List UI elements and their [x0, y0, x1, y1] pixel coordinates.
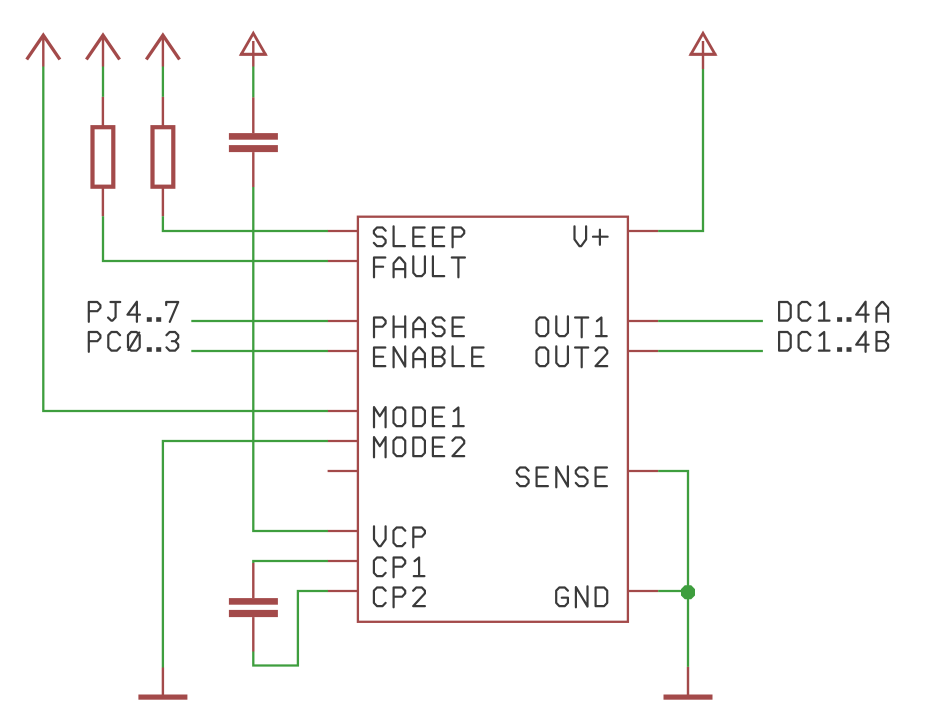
wire OUT2 to DC1..4B [658, 350, 763, 352]
pin name GND [556, 586, 607, 607]
pin name SLEEP [374, 226, 464, 247]
IC U1 body [358, 217, 628, 622]
wire CP2 to C2 bottom [253, 591, 328, 666]
wire SENSE to GND junction [658, 471, 688, 592]
net label DC1..4A [779, 302, 888, 322]
pin OUT2 (U1 right, y=351) [628, 350, 658, 352]
pin name V+ [575, 226, 608, 246]
resistor R2 [153, 97, 174, 216]
pin V+ (U1 right, y=231) [628, 230, 658, 232]
ground symbol GND2 (right) [664, 667, 713, 700]
pin name CP2 [374, 588, 425, 608]
wire PC0..3 bus to ENABLE [191, 350, 328, 352]
supply arrow P3 (VCC) [146, 35, 179, 67]
pin name MODE2 [374, 437, 464, 457]
wire OUT1 to DC1..4A [658, 320, 763, 322]
supply triangle P4 (VDD, above C1) [240, 33, 267, 66]
wire C1 bottom down to VCP [253, 187, 328, 531]
pin VCP (U1 left, y=531) [328, 530, 358, 532]
wire arrow P3 to R2 [162, 67, 164, 97]
pin MODE2 (U1 left, y=441) [328, 440, 358, 442]
pin CP1 (U1 left, y=561) [328, 560, 358, 562]
net label PJ4..7 [89, 302, 178, 322]
pin name SENSE [517, 466, 607, 487]
pin CP2 (U1 left, y=591) [328, 590, 358, 592]
pin ENABLE (U1 left, y=351) [328, 350, 358, 352]
wire GND pin to junction and ground [658, 591, 688, 667]
pin OUT1 (U1 right, y=321) [628, 320, 658, 322]
pin name OUT1 [537, 316, 607, 337]
pin name FAULT [374, 256, 465, 277]
supply arrow P2 (VCC) [86, 35, 119, 67]
ground symbol GND1 (left) [138, 668, 187, 700]
wire VCC net: arrow P1 down to MODE1 [43, 67, 328, 412]
supply triangle P5 (VDD, top right) [690, 33, 717, 69]
pin name OUT2 [537, 346, 608, 367]
pin name ENABLE [374, 346, 484, 367]
pin unconnected (U1 left, y=471) [328, 470, 358, 472]
pin PHASE (U1 left, y=321) [328, 320, 358, 322]
resistor R1 [93, 97, 114, 216]
net label DC1..4B [779, 332, 888, 352]
wire CP1 to C2 top [253, 561, 328, 563]
pin MODE1 (U1 left, y=411) [328, 410, 358, 412]
capacitor C2 [229, 563, 278, 652]
wire V+ to VDD triangle P5 [658, 69, 703, 231]
net label PC0..3 [89, 332, 178, 352]
wire R1 to FAULT [103, 216, 328, 261]
junction dot (GND net) [682, 586, 695, 599]
capacitor C1 [229, 97, 278, 187]
pin name VCP [374, 526, 425, 547]
pin name PHASE [374, 316, 464, 337]
wire R2 to SLEEP [163, 216, 328, 231]
pin SENSE (U1 right, y=471) [628, 470, 658, 472]
wire MODE2 to ground [163, 441, 328, 668]
pin SLEEP (U1 left, y=231) [328, 230, 358, 232]
supply arrow P1 (VCC, left) [27, 35, 60, 67]
pin GND (U1 right, y=591) [628, 590, 658, 592]
pin name CP1 [374, 558, 425, 578]
wire VDD triangle P4 to C1 [252, 67, 254, 98]
wire arrow P2 to R1 [102, 67, 104, 97]
pin name MODE1 [374, 407, 464, 427]
wire PJ4..7 bus to PHASE [191, 320, 328, 322]
pin FAULT (U1 left, y=261) [328, 260, 358, 262]
